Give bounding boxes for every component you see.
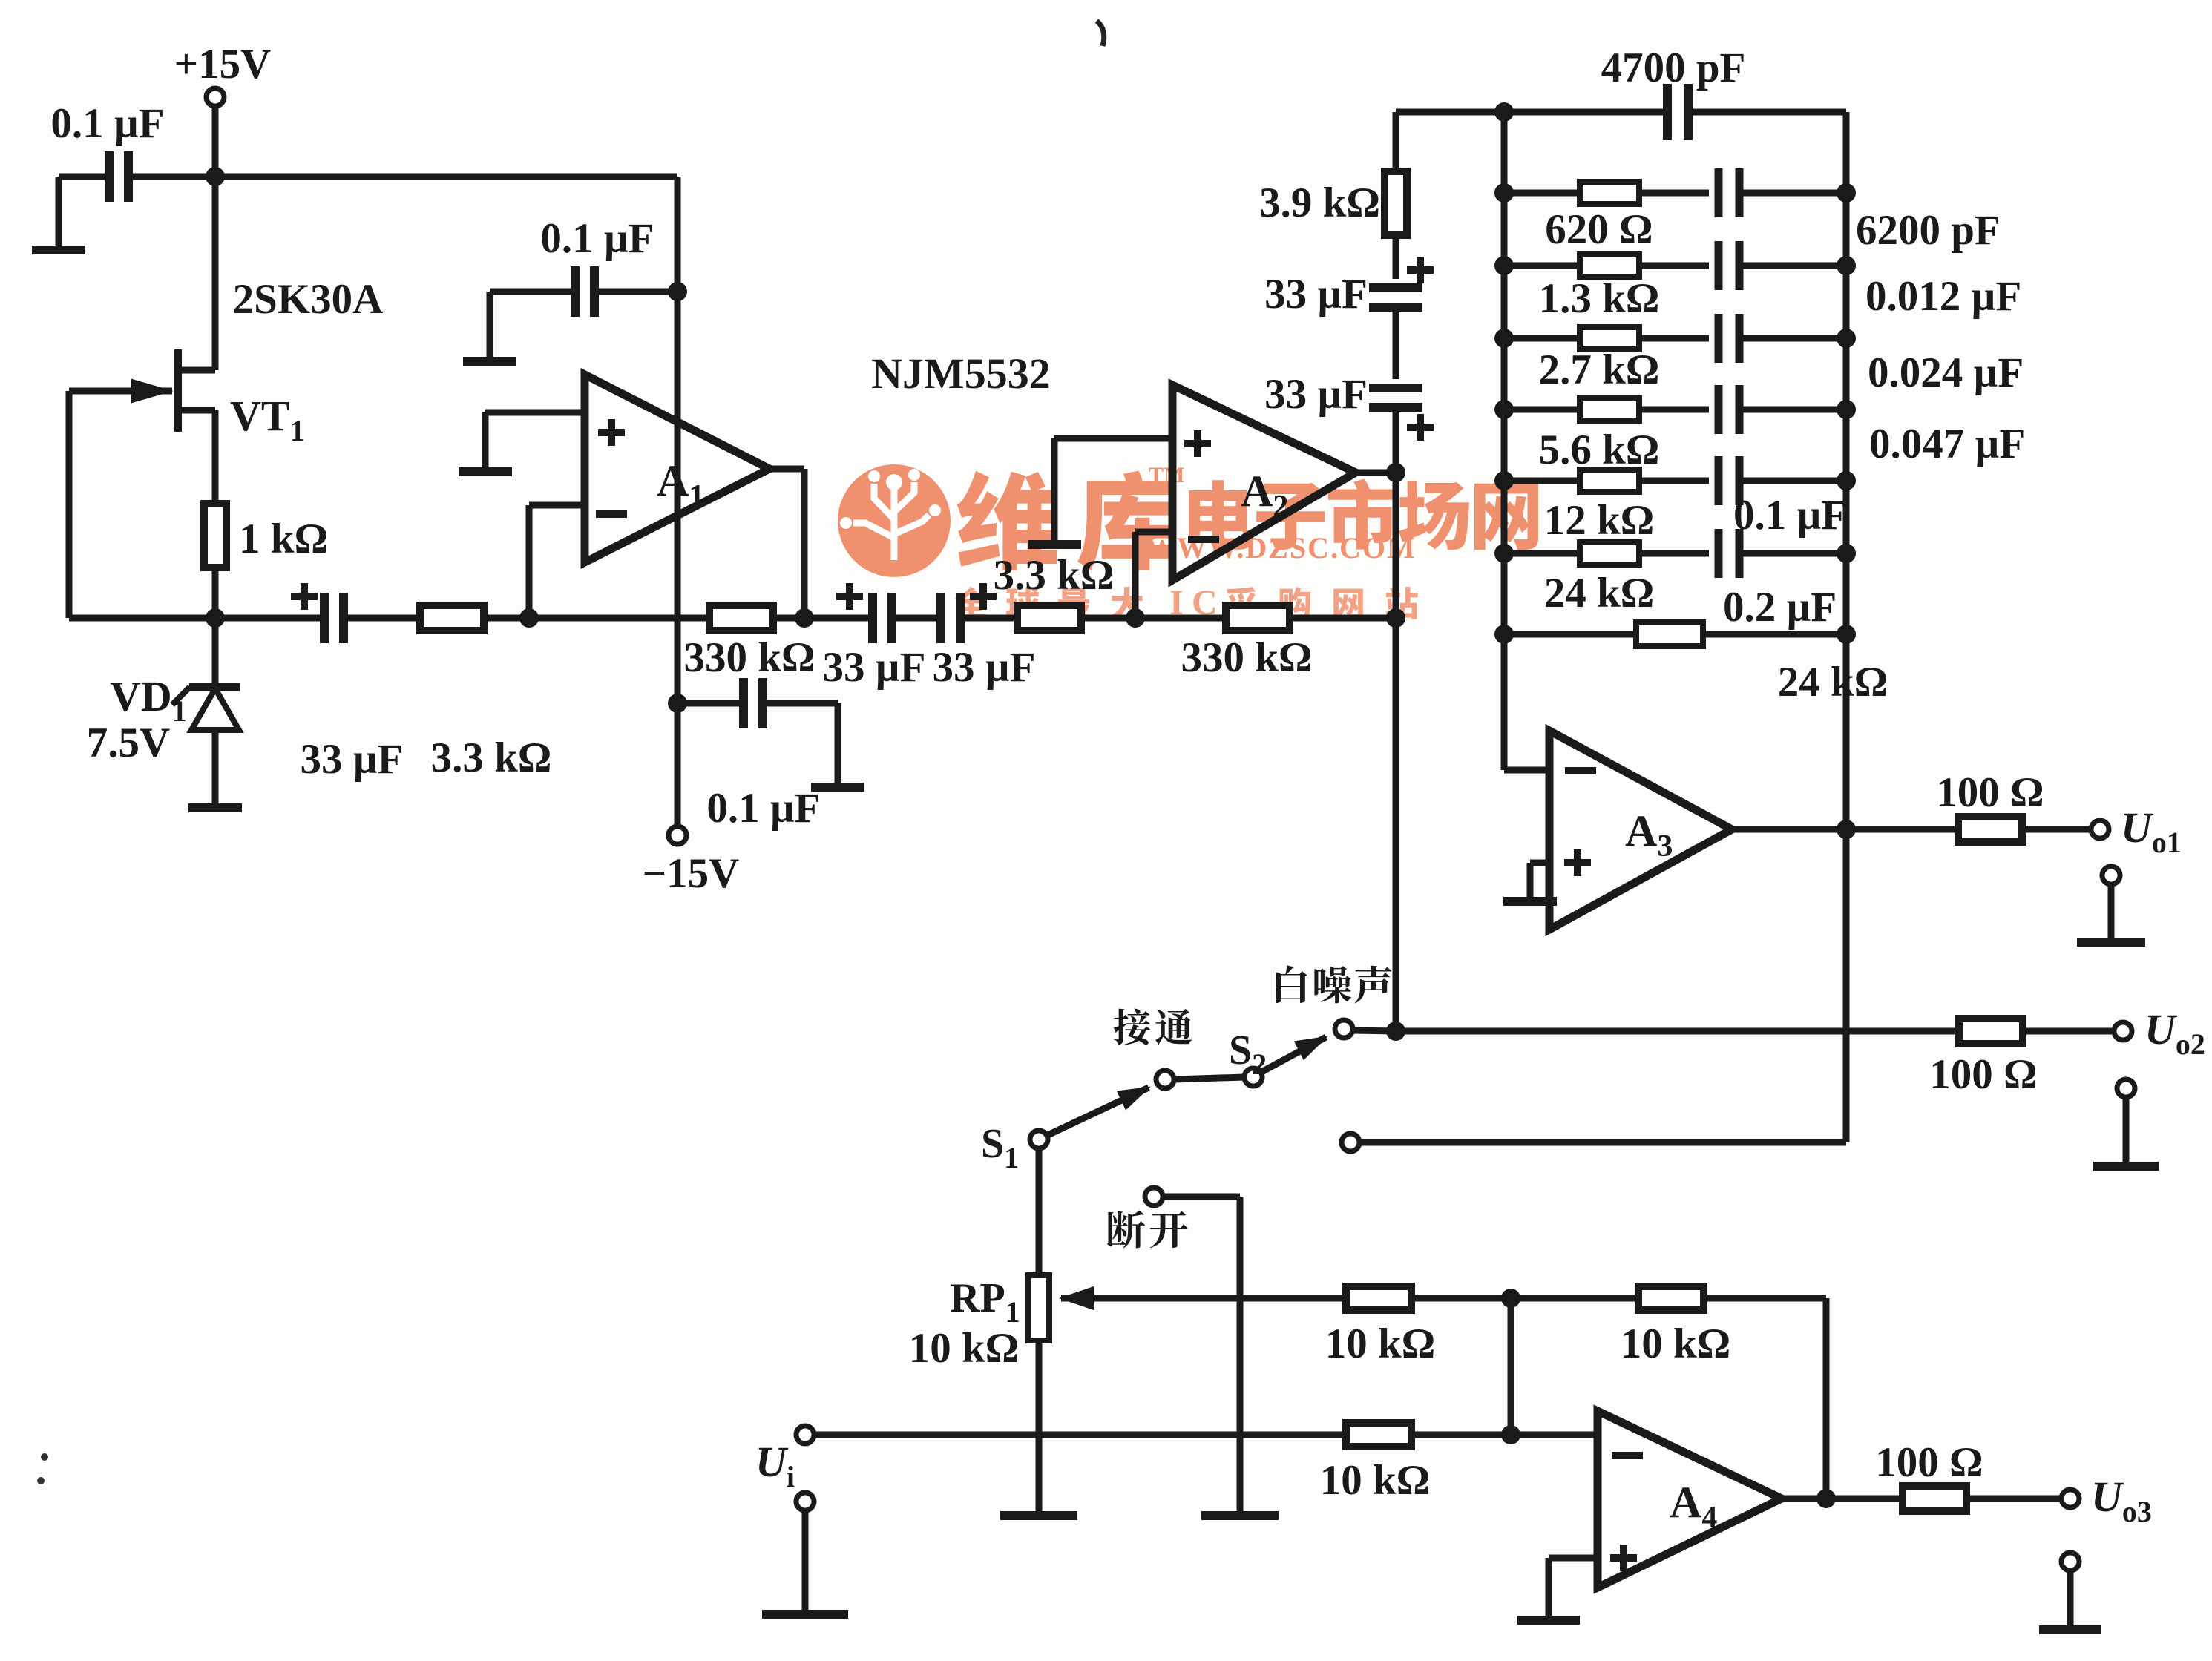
ladder row 5: resistor 12 kΩ and capacitor 0.1 µF: [1494, 456, 1856, 505]
svg-text:33 µF: 33 µF: [301, 736, 404, 783]
resistor 10 kOhm input: [1320, 1423, 1431, 1504]
scan speck bottom left: [37, 1453, 48, 1484]
terminal S2 throw2: [1342, 1134, 1359, 1151]
svg-text:6200 pF: 6200 pF: [1856, 207, 2001, 254]
wire between caps: [892, 615, 941, 622]
wire ladder left rail: [1501, 112, 1508, 770]
svg-text:2SK30A: 2SK30A: [233, 276, 384, 323]
ground duankai: [1201, 1513, 1279, 1516]
svg-text:5.6 kΩ: 5.6 kΩ: [1539, 427, 1660, 473]
wire 3.3k to minus node: [484, 615, 529, 622]
svg-text:10 kΩ: 10 kΩ: [909, 1325, 1020, 1372]
svg-text:10 kΩ: 10 kΩ: [1325, 1320, 1436, 1367]
wire bypass left: [490, 289, 575, 295]
junction +15V rail: [206, 167, 225, 186]
wire bypass bottom: [677, 703, 838, 785]
svg-text:0.047 µF: 0.047 µF: [1869, 421, 2025, 467]
wire left rail to A3 minus: [1504, 767, 1549, 774]
label 24 kOhm row7: [1778, 659, 1888, 705]
wire top rail: [1396, 109, 1846, 116]
junction A2 minus node: [1126, 608, 1145, 628]
wire 3.9k to cap: [1393, 235, 1399, 279]
terminal ground Uo2: [2093, 1079, 2159, 1166]
wire A4 plus input: [1549, 1558, 1598, 1618]
svg-text:3.9 kΩ: 3.9 kΩ: [1259, 180, 1380, 226]
label 2.7 kΩ: [1539, 346, 1660, 393]
ground zener: [188, 806, 242, 808]
wire ladder right rail: [1843, 112, 1850, 1142]
potentiometer RP1 10 kOhm: [909, 1275, 1049, 1372]
wire A3 out to 100R: [1846, 826, 1959, 833]
terminal ground Ui: [762, 1493, 848, 1614]
ladder row 1: resistor 620 Ω and capacitor 6200 pF: [1494, 168, 1856, 217]
resistor 3.9 kOhm: [1259, 171, 1407, 235]
terminal Uo1: [2091, 803, 2182, 859]
svg-text:0.1 µF: 0.1 µF: [706, 785, 820, 832]
capacitor 33 uF bus lower: [1264, 371, 1434, 441]
wire cap left to rail: [59, 174, 109, 180]
wire 10k to sum node: [1411, 1295, 1511, 1302]
terminal ground Uo3: [2039, 1553, 2101, 1630]
label 0.024 µF: [1868, 349, 2024, 396]
op-amp A2: [1172, 385, 1356, 580]
capacitor 33 uF coupling 1: [291, 583, 403, 783]
svg-text:7.5V: 7.5V: [87, 720, 170, 766]
ground: [32, 248, 85, 250]
wire minus node to 330k: [529, 615, 709, 622]
wiper arrow: [1061, 1287, 1347, 1309]
wire output node to caps: [804, 615, 873, 622]
wire cap to 3.3k: [344, 615, 421, 622]
label jietong (connect): [1114, 1009, 1192, 1045]
wire A2 minus node to 330k: [1135, 615, 1227, 622]
wire node to cap33: [215, 615, 325, 622]
svg-text:0.1 µF: 0.1 µF: [540, 215, 654, 262]
junction A4 output: [1816, 1489, 1836, 1508]
terminal white-noise contact: [1335, 1020, 1353, 1038]
terminal -15V: [643, 826, 740, 897]
resistor 330 kOhm A2 feedback: [1181, 605, 1312, 681]
wire S1 down to RP1: [1036, 1148, 1043, 1276]
ground A3 plus: [1503, 899, 1557, 901]
ground A2 plus: [1028, 542, 1081, 545]
terminal Uo2: [2114, 1005, 2205, 1061]
capacitor 4700 pF: [1601, 45, 1746, 140]
label 620 Ω: [1545, 206, 1653, 253]
wire A2 output: [1356, 470, 1396, 476]
svg-text:33 µF: 33 µF: [933, 644, 1036, 691]
wire 100R to U01: [2021, 826, 2091, 833]
wire 10k to sum node bottom: [1411, 1432, 1511, 1438]
svg-text:0.1 µF: 0.1 µF: [50, 100, 164, 147]
wire down to ground: [56, 177, 62, 248]
junction sum node top: [1501, 1289, 1520, 1308]
wire jietong to S2: [1175, 1077, 1244, 1079]
wire cap right to +15V: [128, 174, 215, 180]
ground A4 plus: [1517, 1618, 1580, 1620]
transistor VT1 2SK30A JFET: [69, 276, 383, 447]
wire A3 output: [1732, 826, 1846, 833]
resistor 10 kOhm wiper: [1325, 1286, 1436, 1367]
switch S1 pole: [981, 1121, 1048, 1174]
wire bypass right: [594, 289, 677, 295]
label white noise: [1276, 965, 1391, 1003]
wire A1 plus input: [485, 412, 585, 470]
terminal ground Uo1: [2077, 866, 2145, 942]
wire duankai right and down: [1164, 1197, 1240, 1513]
label 0.1 µF: [1733, 492, 1847, 539]
svg-text:4700 pF: 4700 pF: [1601, 45, 1746, 91]
wire A4 output: [1782, 1496, 1902, 1502]
label 5.6 kΩ: [1539, 427, 1660, 473]
svg-text:33 µF: 33 µF: [823, 644, 926, 691]
ladder row 4: resistor 5.6 kΩ and capacitor 0.047 µF: [1494, 385, 1856, 434]
wire to -15V: [675, 703, 681, 826]
capacitor 33 uF coupling 2: [823, 583, 926, 691]
ground RP1: [1000, 1513, 1077, 1516]
wire A2 minus input: [1135, 532, 1172, 618]
wire 3.3k to A2 minus node: [1080, 615, 1135, 622]
resistor 100 Ohm output2: [1929, 1019, 2037, 1098]
terminal Ui: [755, 1426, 814, 1493]
wire white-noise to bus: [1353, 1030, 1396, 1031]
junction A1 Vplus bypass: [668, 282, 687, 301]
capacitor 33 uF coupling 3: [933, 583, 1036, 691]
label 1.3 kΩ: [1539, 275, 1660, 322]
svg-text:0.024 µF: 0.024 µF: [1868, 349, 2024, 396]
resistor 3.3 kOhm A2 input: [994, 552, 1115, 631]
svg-text:1 kΩ: 1 kΩ: [239, 516, 328, 562]
svg-text:1.3 kΩ: 1.3 kΩ: [1539, 275, 1660, 322]
junction sum node bottom: [1501, 1425, 1520, 1444]
switch S2 pole: [1229, 1027, 1267, 1086]
ladder row 3: resistor 2.7 kΩ and capacitor 0.024 µF: [1494, 314, 1856, 363]
wire +15V rail to A1 supply: [215, 174, 677, 180]
wire sum node vertical: [1508, 1298, 1514, 1435]
node source bias junction: [206, 608, 225, 628]
capacitor 0.1 uF supply decoupling: [50, 100, 164, 202]
wire A2 plus input: [1054, 438, 1172, 542]
ladder row 2: resistor 1.3 kΩ and capacitor 0.012 µF: [1494, 241, 1856, 290]
label 6200 pF: [1856, 207, 2001, 254]
wire +15V vertical: [212, 106, 219, 370]
svg-text:620 Ω: 620 Ω: [1545, 206, 1653, 253]
resistor 3.3 kOhm input: [420, 605, 551, 781]
wire 100R to U02: [2023, 1028, 2114, 1035]
svg-text:+15V: +15V: [174, 41, 272, 88]
label 12 kΩ: [1544, 497, 1655, 544]
svg-text:10 kΩ: 10 kΩ: [1320, 1457, 1431, 1504]
ground A1 plus: [459, 470, 512, 472]
ladder row 7: resistor 24 kOhm: [1494, 622, 1856, 646]
wire between bus caps: [1393, 307, 1399, 379]
svg-text:24 kΩ: 24 kΩ: [1778, 659, 1888, 705]
svg-text:12 kΩ: 12 kΩ: [1544, 497, 1655, 544]
svg-text:−15V: −15V: [643, 850, 740, 897]
svg-text:10 kΩ: 10 kΩ: [1621, 1320, 1731, 1367]
svg-text:WWW.DZSC.COM: WWW.DZSC.COM: [1146, 531, 1417, 565]
svg-text:2.7 kΩ: 2.7 kΩ: [1539, 346, 1660, 393]
svg-text:24 kΩ: 24 kΩ: [1544, 570, 1655, 616]
label 0.2 µF: [1723, 584, 1837, 631]
svg-text:NJM5532: NJM5532: [871, 349, 1051, 398]
wire cap to A2 output: [1393, 407, 1399, 473]
scan mark top: [1097, 21, 1104, 46]
label duankai (open): [1107, 1211, 1188, 1249]
junction A2 output bus: [1386, 463, 1405, 482]
svg-text:0.012 µF: 0.012 µF: [1865, 273, 2021, 320]
wire A1 output: [769, 469, 804, 618]
svg-text:3.3 kΩ: 3.3 kΩ: [431, 734, 552, 781]
junction noise node: [1386, 1022, 1405, 1041]
label 24 kΩ: [1544, 570, 1655, 616]
wire A3 plus input: [1530, 863, 1549, 899]
op-amp A1 NJM5532: [585, 349, 1051, 562]
resistor 100 Ohm output1: [1936, 769, 2044, 842]
ground bypass bottom: [811, 785, 864, 787]
wire A1 minus input: [529, 505, 585, 618]
switch S2 arm to white-noise: [1261, 1037, 1326, 1072]
svg-text:33 µF: 33 µF: [1264, 271, 1368, 318]
op-amp A4: [1598, 1411, 1782, 1588]
switch S1 arm to jietong: [1048, 1088, 1149, 1135]
junction A1 Vminus bypass: [668, 694, 687, 713]
wire cap to 3.3k A2: [960, 615, 1018, 622]
junction A1 output node: [795, 608, 814, 628]
wire sum to A4 minus: [1511, 1432, 1598, 1438]
wire 100R to U03: [1967, 1496, 2061, 1502]
wire throw2 to right rail: [1360, 1139, 1846, 1146]
terminal jietong contact: [1156, 1070, 1174, 1088]
ladder row 6: resistor 24 kΩ and capacitor 0.2 µF: [1494, 529, 1856, 578]
wire noise node to 100R: [1396, 1028, 1959, 1035]
wire bus top: [1393, 112, 1399, 172]
junction bus main line: [1386, 608, 1405, 628]
watermark: [838, 463, 1538, 622]
ground bypass top: [463, 292, 516, 361]
terminal duankai: [1145, 1188, 1163, 1206]
junction top rail left rail: [1494, 102, 1514, 122]
svg-text:33 µF: 33 µF: [1264, 371, 1368, 418]
wire 330k to bus: [1289, 615, 1396, 622]
resistor 10 kOhm A4 feedback: [1511, 1286, 1826, 1499]
zener diode VD1 7.5V: [87, 618, 240, 806]
resistor 100 Ohm output3: [1875, 1439, 1983, 1511]
terminal Uo3: [2061, 1473, 2152, 1528]
op-amp A3: [1549, 731, 1732, 930]
svg-text:3.3 kΩ: 3.3 kΩ: [994, 552, 1115, 599]
svg-text:0.2 µF: 0.2 µF: [1723, 584, 1837, 631]
wire 330k to output node: [773, 615, 804, 622]
wire Ui to 10k: [814, 1432, 1346, 1438]
resistor 330 kOhm A1 feedback: [683, 605, 815, 681]
capacitor 33 uF bus upper: [1264, 257, 1434, 318]
wire RP1 down to ground: [1036, 1341, 1043, 1513]
svg-text:0.1 µF: 0.1 µF: [1733, 492, 1847, 539]
wire gate left down: [69, 391, 215, 618]
wire source down: [212, 410, 219, 504]
resistor 1 kOhm: [204, 504, 328, 568]
svg-text:330 kΩ: 330 kΩ: [1181, 634, 1312, 681]
junction A1 minus node: [519, 608, 539, 628]
wire bus to noise node: [1393, 618, 1399, 1031]
wire 1k to node: [212, 568, 219, 618]
svg-text:TM: TM: [1149, 463, 1184, 487]
svg-text:100 Ω: 100 Ω: [1875, 1439, 1983, 1486]
capacitor 0.1 uF A1 bottom bypass: [706, 678, 820, 832]
junction A3 output rail: [1837, 820, 1856, 839]
capacitor 0.1 uF A1 top bypass: [540, 215, 654, 317]
label 0.012 µF: [1865, 273, 2021, 320]
wire A2 out down to main line: [1393, 473, 1399, 618]
svg-text:100 Ω: 100 Ω: [1929, 1051, 2037, 1098]
wire A1 supply vertical: [675, 177, 681, 703]
terminal +15V: [174, 41, 272, 106]
label 0.047 µF: [1869, 421, 2025, 467]
svg-text:100 Ω: 100 Ω: [1936, 769, 2044, 816]
svg-text:330 kΩ: 330 kΩ: [683, 634, 815, 681]
